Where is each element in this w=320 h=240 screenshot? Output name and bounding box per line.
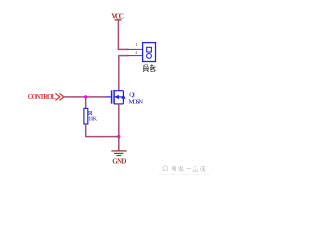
connector (load header) body	[143, 43, 156, 62]
svg-text:MOS-N: MOS-N	[129, 98, 144, 105]
label 负载 (load) drawn strokes	[143, 64, 156, 72]
ground symbol	[111, 151, 126, 156]
wire VCC stem down	[117, 20, 119, 50]
transistor Q1 MOS-N	[106, 90, 126, 104]
svg-text:VCC: VCC	[111, 12, 124, 21]
wire source down to ground	[118, 104, 120, 151]
watermark text 电路一点通	[173, 166, 206, 171]
junction node at R1 top	[84, 95, 87, 98]
wire R1 bottom down	[85, 124, 87, 137]
connector J pin 2 stub	[128, 55, 143, 57]
connector J pin 1 stub	[128, 48, 143, 50]
svg-text:Q1: Q1	[129, 91, 135, 98]
svg-text:CONTROL: CONTROL	[28, 94, 57, 101]
power symbol VCC	[111, 12, 124, 21]
watermark icon	[163, 166, 168, 171]
port chevron	[55, 93, 63, 100]
svg-text:10K: 10K	[88, 117, 98, 123]
wire junction down to R1	[85, 97, 87, 109]
wire VCC to connector pin 1	[118, 48, 129, 50]
svg-text:GND: GND	[112, 158, 126, 165]
wire pin2 down to MOSFET drain	[118, 56, 120, 91]
svg-text:1: 1	[135, 42, 137, 47]
faint bottom watermark row	[158, 174, 210, 175]
junction node at source/gnd	[117, 135, 120, 138]
wire CONTROL to gate	[64, 96, 106, 98]
svg-text:2: 2	[135, 50, 137, 55]
grid dots	[2, 0, 213, 171]
wire R1 to source (horizontal)	[86, 136, 120, 138]
resistor R1 body	[84, 108, 88, 124]
wire connector pin 2 to drain (horizontal)	[118, 55, 128, 57]
